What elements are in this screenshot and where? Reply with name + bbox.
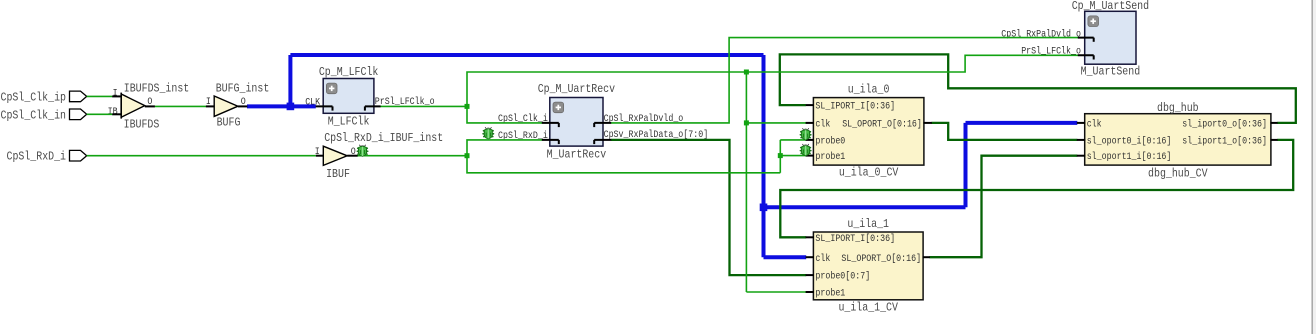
debug mark at M_UartRecv CpSl_RxD_i label — [482, 127, 494, 139]
pin stub u_ila_1 SL_IPORT_I — [806, 236, 814, 238]
wire RxD net into u_ila_0 probe0 — [780, 139, 806, 141]
svg-text:CpSl_Clk_in: CpSl_Clk_in — [1, 108, 67, 122]
svg-text:M_UartRecv: M_UartRecv — [547, 148, 607, 162]
svg-text:u_ila_0: u_ila_0 — [848, 82, 890, 96]
wire clk net riser at BUFG junction — [288, 55, 292, 106]
wire RxD net riser to u_ila_0 probes — [779, 140, 781, 173]
wire LFClk net down branch to M_UartRecv CpSl_Clk_i — [467, 106, 542, 123]
junction node RxD at u_ila_0 probe1 row — [778, 153, 783, 158]
pin stub dbg_hub sl_iport0_o — [1270, 122, 1277, 124]
svg-text:dbg_hub_CV: dbg_hub_CV — [1148, 166, 1208, 180]
pin stub dbg_hub sl_oport1_i — [1077, 155, 1086, 157]
pin stub u_ila_0 clk — [806, 122, 814, 124]
svg-text:probe0[0:7]: probe0[0:7] — [815, 271, 870, 283]
junction node LFClk top branch x=746 — [744, 70, 749, 75]
wire RxD net down branch along y=173 — [467, 156, 780, 173]
svg-text:CpSl_Clk_ip: CpSl_Clk_ip — [1, 91, 67, 105]
junction node clk at x=763 — [760, 204, 768, 212]
pin stub dbg_hub sl_iport1_o — [1270, 139, 1277, 141]
svg-text:sl_oport1_i[0:16]: sl_oport1_i[0:16] — [1087, 151, 1172, 163]
pin stub IBUF I — [316, 155, 324, 157]
hierarchical module M_UartRecv (Cp_M_UartRecv) — [550, 98, 603, 147]
ILA core u_ila_1 — [813, 232, 923, 300]
pin stub M_UartRecv CpSl_RxD_i — [542, 139, 559, 141]
ILA core u_ila_0 — [813, 98, 924, 166]
bus SL_IPORT1 dbg_hub sl_iport1_o to u_ila_1 — [780, 140, 1293, 237]
svg-text:IBUFDS_inst: IBUFDS_inst — [124, 82, 190, 96]
wire LFClk net vertical branch x=746 — [745, 72, 747, 292]
wire CpSl_Clk_in port to IBUFDS IB — [87, 113, 113, 115]
wire IBUFDS O to BUFG I — [155, 105, 206, 107]
svg-text:u_ila_1: u_ila_1 — [847, 217, 889, 231]
pin stub IBUFDS I — [112, 95, 121, 97]
wire CpSl_RxD_i port to IBUF I — [87, 155, 316, 157]
pin stub u_ila_0 SL_IPORT_I — [806, 104, 814, 106]
wire clk net BUFG output to M_LFClk CLK — [247, 104, 316, 108]
svg-text:BUFG_inst: BUFG_inst — [216, 81, 270, 95]
svg-text:dbg_hub: dbg_hub — [1157, 101, 1199, 115]
wire RxD net up branch to M_UartRecv CpSl_RxD_i — [467, 140, 542, 156]
svg-text:CpSl_RxD_i: CpSl_RxD_i — [7, 149, 67, 163]
svg-text:Cp_M_UartSend: Cp_M_UartSend — [1072, 0, 1149, 13]
wire clk net main vertical drop x=763 — [762, 55, 766, 257]
pin stub M_LFClk CLK — [316, 105, 333, 107]
input buffer CpSl_RxD_i_IBUF_inst — [323, 146, 347, 165]
svg-text:IBUF: IBUF — [326, 167, 350, 181]
svg-text:CpSl_RxPalDvld_o: CpSl_RxPalDvld_o — [1001, 28, 1081, 40]
debug mark at u_ila_0 probe0 — [800, 128, 812, 140]
svg-text:probe0: probe0 — [815, 136, 845, 148]
wire CpSl_RxPalDvld_o M_UartRecv to M_UartSend — [611, 38, 1078, 123]
panel edge strip at right — [1313, 0, 1316, 334]
debug hub dbg_hub — [1085, 114, 1271, 165]
pin stub M_UartRecv CpSl_Clk_i — [542, 122, 559, 124]
pin stub IBUF O — [347, 155, 358, 157]
input port CpSl_Clk_ip — [70, 91, 87, 102]
svg-text:sl_iport0_o[0:36]: sl_iport0_o[0:36] — [1182, 119, 1267, 131]
svg-text:probe1: probe1 — [815, 288, 845, 300]
pin stub IBUFDS O — [145, 105, 155, 107]
wire clk net riser to dbg_hub row — [964, 123, 968, 207]
junction node RxD at IBUF output — [465, 153, 470, 158]
wire clk net into u_ila_1 clk — [764, 255, 807, 259]
wire LFClk net into u_ila_0 clk — [746, 122, 806, 124]
svg-text:SL_IPORT_I[0:36]: SL_IPORT_I[0:36] — [815, 233, 895, 245]
pin stub u_ila_1 clk — [806, 256, 814, 258]
svg-text:SL_OPORT_O[0:16]: SL_OPORT_O[0:16] — [842, 119, 922, 131]
wire IBUF O to junction node — [358, 155, 468, 157]
svg-text:BUFG: BUFG — [217, 116, 241, 130]
svg-text:SL_IPORT_I[0:36]: SL_IPORT_I[0:36] — [815, 101, 895, 113]
svg-text:probe1: probe1 — [815, 151, 845, 163]
pin stub u_ila_1 probe1 — [806, 291, 814, 293]
wire PrSl_LFClk_o M_LFClk output to junction — [380, 105, 467, 107]
pin stub IBUFDS IB — [112, 113, 121, 115]
svg-text:u_ila_0_CV: u_ila_0_CV — [839, 166, 899, 180]
svg-text:clk: clk — [815, 253, 830, 265]
bus SL_OPORT1 u_ila_1 to dbg_hub sl_oport1_i — [930, 156, 1078, 258]
svg-text:M_UartSend: M_UartSend — [1081, 64, 1141, 78]
hierarchical module M_LFClk (Cp_M_LFClk) — [323, 79, 374, 114]
wire RxD net into u_ila_0 probe1 — [780, 155, 806, 157]
pin stub u_ila_0 probe1 — [806, 155, 814, 157]
pin stub u_ila_1 probe0 — [806, 274, 814, 276]
wire clk net branch toward dbg_hub — [764, 205, 966, 209]
svg-text:clk: clk — [1087, 119, 1102, 131]
bus SL_OPORT0 u_ila_0 to dbg_hub sl_oport0_i — [932, 123, 1078, 140]
input port CpSl_Clk_in — [70, 109, 87, 120]
wire clk net top horizontal run — [290, 53, 763, 57]
pin stub M_UartRecv CpSv_RxPalData_o — [594, 139, 611, 141]
input port CpSl_RxD_i — [70, 150, 87, 161]
svg-text:I: I — [113, 87, 118, 99]
pin stub u_ila_0 probe0 — [806, 139, 814, 141]
junction node LFClk at u_ila_0 clk row — [744, 120, 749, 125]
pin stub u_ila_1 SL_OPORT_O — [923, 256, 930, 258]
pin stub M_UartRecv CpSl_RxPalDvld_o — [594, 122, 611, 124]
pin stub BUFG O — [238, 105, 248, 107]
svg-text:sl_oport0_i[0:16]: sl_oport0_i[0:16] — [1087, 136, 1172, 148]
pin stub M_LFClk PrSl_LFClk_o — [365, 105, 381, 107]
svg-text:Cp_M_LFClk: Cp_M_LFClk — [319, 65, 379, 79]
pin stub dbg_hub sl_oport0_i — [1077, 139, 1086, 141]
svg-text:Cp_M_UartRecv: Cp_M_UartRecv — [538, 82, 615, 96]
svg-text:clk: clk — [815, 119, 830, 131]
pin stub M_UartSend CpSl_RxPalDvld — [1078, 37, 1094, 39]
svg-text:M_LFClk: M_LFClk — [328, 114, 370, 128]
wire LFClk net into u_ila_1 probe1 — [746, 291, 806, 293]
junction node clk at BUFG output — [287, 103, 295, 111]
bus CpSv_RxPalData_o[7:0] M_UartRecv to u_ila_1 probe0 — [611, 140, 806, 275]
svg-text:IBUFDS: IBUFDS — [124, 118, 160, 132]
svg-text:SL_OPORT_O[0:16]: SL_OPORT_O[0:16] — [841, 253, 921, 265]
pin stub M_UartSend PrSl_LFClk — [1078, 54, 1094, 56]
junction node LFClk at M_LFClk output — [465, 104, 470, 109]
pin stub BUFG I — [206, 105, 215, 107]
hierarchical module M_UartSend (Cp_M_UartSend) — [1085, 11, 1136, 64]
differential input buffer IBUFDS_inst — [121, 94, 145, 117]
debug mark at u_ila_0 probe1 — [800, 144, 812, 156]
bus SL_IPORT0 u_ila_0 to dbg_hub sl_iport0_o — [780, 54, 1296, 123]
pin stub dbg_hub clk — [1077, 122, 1086, 124]
wire CpSl_Clk_ip port to IBUFDS I — [87, 95, 113, 97]
wire LFClk net up branch and top run to M_UartSend — [467, 55, 1078, 106]
debug mark at IBUF output — [357, 145, 369, 157]
pin stub u_ila_0 SL_OPORT_O — [923, 122, 932, 124]
svg-text:u_ila_1_CV: u_ila_1_CV — [838, 301, 898, 315]
svg-text:CpSl_RxD_i_IBUF_inst: CpSl_RxD_i_IBUF_inst — [324, 131, 443, 145]
global clock buffer BUFG_inst — [214, 96, 238, 116]
wire clk net into dbg_hub clk — [966, 121, 1078, 125]
svg-text:sl_iport1_o[0:36]: sl_iport1_o[0:36] — [1182, 136, 1267, 148]
svg-text:IB: IB — [108, 106, 118, 118]
